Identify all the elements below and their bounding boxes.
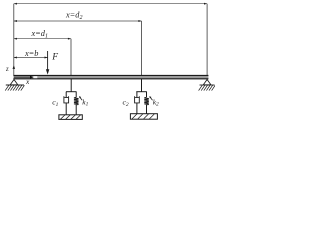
damper 1 piston plate	[64, 97, 68, 99]
damper 1 branch line	[65, 92, 67, 98]
right support hatching	[199, 85, 216, 90]
spring 2 lower line	[146, 105, 148, 114]
damper 2 cup	[135, 96, 140, 103]
damper 2 lower line	[136, 103, 138, 114]
assembly 2 top bar	[136, 91, 147, 93]
z-axis arrowhead	[13, 65, 16, 69]
left support ground line	[6, 84, 24, 86]
svg-text:z: z	[5, 66, 9, 73]
right support ground line	[200, 84, 215, 86]
spring 2 branch line	[146, 92, 148, 98]
wire d1 extension / spring stem upper	[70, 39, 72, 76]
right pin support triangle	[203, 80, 211, 85]
wire right extension line	[206, 4, 208, 80]
beam	[13, 75, 208, 79]
left support hatching	[5, 85, 24, 90]
svg-text:F: F	[51, 52, 58, 62]
spring 2 coils	[144, 97, 149, 105]
dimension line x=d2	[14, 20, 142, 22]
assembly 2 stem below beam	[141, 79, 143, 92]
damper 1 cup	[64, 96, 69, 103]
spring 1 coils	[74, 97, 79, 105]
x-axis arrow	[14, 76, 31, 78]
dimension line 1 (full span, unlabeled)	[14, 3, 207, 5]
damper 1 lower line	[65, 103, 67, 115]
x-axis arrow white backing	[33, 76, 37, 78]
wire left extension line (z-axis line)	[13, 4, 15, 75]
svg-text:x=b: x=b	[24, 49, 38, 58]
svg-text:x: x	[25, 77, 30, 86]
dimension line x=b	[14, 57, 48, 59]
k2 leader arrow	[150, 97, 153, 100]
spring 1 lower line	[75, 105, 77, 115]
wire d2 extension / spring stem upper	[141, 21, 143, 76]
assembly 1 stem below beam	[70, 79, 72, 92]
k1 leader arrow	[80, 97, 83, 100]
left pin support triangle	[10, 80, 18, 85]
ground block 1	[59, 115, 82, 120]
dimension line x=d1	[14, 38, 71, 40]
damper 2 branch line	[136, 92, 138, 98]
ground block 2	[130, 114, 157, 120]
damper 2 piston plate	[135, 97, 139, 99]
assembly 1 top bar	[66, 91, 77, 93]
spring 1 branch line	[75, 92, 77, 98]
force F line with arrow	[47, 51, 49, 70]
